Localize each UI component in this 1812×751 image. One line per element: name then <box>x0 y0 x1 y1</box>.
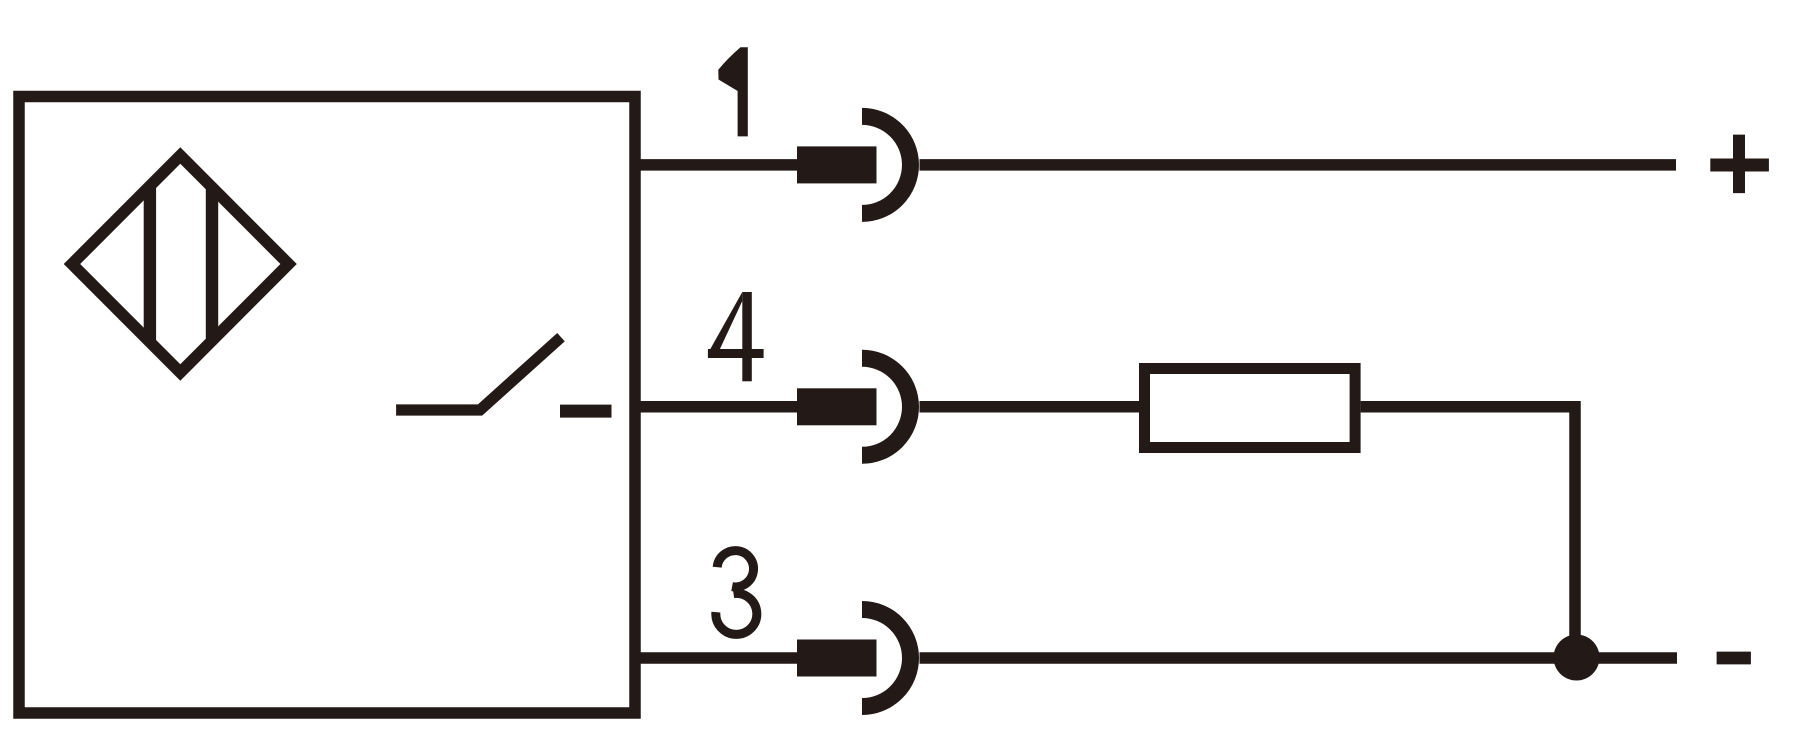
sensor box U1 <box>19 97 635 714</box>
connector socket arc 4 <box>862 358 911 455</box>
minus terminal <box>1717 652 1751 665</box>
pin label 4 <box>708 292 764 381</box>
pin label 3 <box>716 551 757 635</box>
connector pin plug 4 <box>797 388 877 425</box>
pin label 1 <box>718 47 748 136</box>
connector socket arc 1 <box>862 116 910 213</box>
sensor symbol diamond <box>64 147 297 381</box>
diamond inner line left <box>144 185 156 343</box>
junction dot <box>1554 635 1600 681</box>
wire pin1 from box to plug <box>630 159 797 171</box>
diamond inner line right <box>206 186 218 342</box>
wire pin3 to minus terminal <box>920 652 1678 664</box>
wire pin3 from box to plug <box>630 652 797 664</box>
wire pin4 from box to plug <box>630 401 797 413</box>
connector socket arc 3 <box>862 610 911 707</box>
connector pin plug 3 <box>797 640 877 677</box>
wire resistor to corner <box>1361 401 1575 413</box>
resistor load R1 <box>1145 369 1356 448</box>
wire pin1 to plus terminal <box>920 159 1677 171</box>
connector pin plug 1 <box>797 146 877 183</box>
plus terminal horizontal bar <box>1710 159 1769 172</box>
wire pin4 to resistor <box>920 401 1141 413</box>
wire corner down to junction <box>1569 401 1581 658</box>
plus terminal vertical bar <box>1733 135 1745 194</box>
switch fixed contact dash <box>560 405 612 418</box>
switch left contact bar and lever <box>396 337 561 410</box>
